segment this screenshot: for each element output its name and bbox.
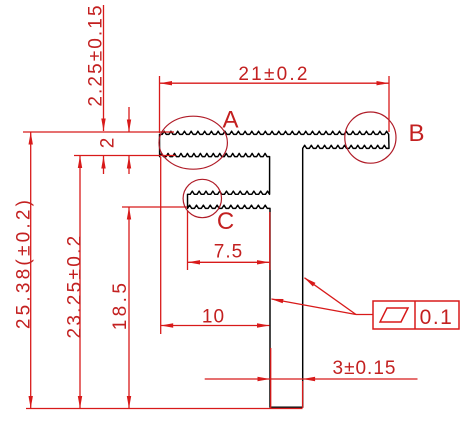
dimension 23.25±0.2 [65, 156, 86, 409]
dimension 2.25±0.15 [86, 3, 107, 174]
extension line bottom [26, 408, 303, 410]
profile outline (serrated T-profile) [160, 131, 390, 407]
svg-text:B: B [408, 120, 424, 147]
svg-text:2.25±0.15: 2.25±0.15 [86, 3, 107, 106]
dimension 18.5 [110, 207, 131, 409]
detail ellipse A [159, 116, 227, 169]
extension line 3 right [302, 381, 304, 408]
extension line 3 left [270, 348, 272, 408]
extension line 7.5/10 right (over stem face) [269, 212, 271, 270]
extension line arm underside [74, 155, 176, 157]
detail circle B [345, 112, 396, 163]
leader arrows to stem faces [271, 278, 373, 315]
dimension 7.5 [188, 242, 270, 265]
svg-text:10: 10 [202, 307, 225, 328]
svg-text:7.5: 7.5 [214, 242, 243, 263]
extension line 10 left [160, 157, 162, 334]
svg-text:3±0.15: 3±0.15 [333, 358, 397, 379]
extension line 7.5 left [187, 211, 189, 270]
svg-text:21±0.2: 21±0.2 [238, 64, 309, 85]
extension line lip underside [122, 206, 187, 208]
svg-text:0.1: 0.1 [420, 306, 454, 329]
dimension 25.38(±0.2) [14, 132, 35, 409]
svg-text:C: C [217, 208, 234, 235]
dimension 2 [98, 107, 132, 174]
svg-text:2: 2 [98, 138, 119, 149]
detail circle C [183, 179, 221, 217]
svg-text:A: A [222, 107, 238, 134]
dimension 21±0.2 [160, 64, 390, 85]
svg-text:18.5: 18.5 [110, 280, 131, 331]
feature control frame: flatness 0.1 [373, 301, 459, 329]
extension line 21 right [388, 76, 390, 132]
dimension 10 [161, 307, 270, 328]
svg-text:23.25±0.2: 23.25±0.2 [65, 233, 86, 338]
extension line 21 left [159, 76, 161, 133]
flatness (parallelogram) symbol [380, 308, 408, 322]
svg-text:25.38(±0.2): 25.38(±0.2) [14, 197, 35, 329]
extension line top (wave crest level) [23, 131, 174, 133]
dimension 3±0.15 [205, 358, 418, 381]
